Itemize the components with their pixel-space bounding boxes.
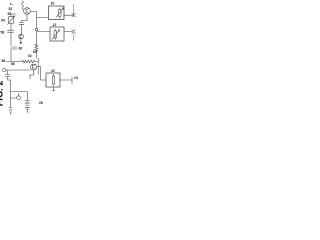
wire left column down xyxy=(10,49,12,62)
transducer T2 xyxy=(73,34,75,42)
wire box54 bottom down xyxy=(10,23,12,30)
labels 62 64 xyxy=(28,50,37,58)
transistor Q1 xyxy=(24,8,31,15)
capacitor C3 xyxy=(11,47,17,49)
svg-text:52: 52 xyxy=(9,7,13,11)
label 58 xyxy=(1,31,5,35)
svg-text:24: 24 xyxy=(74,76,78,80)
wire Q1 collector to bus xyxy=(30,11,36,13)
label 60 xyxy=(19,47,23,51)
variable component box 54 xyxy=(9,17,14,24)
transistor Q3 xyxy=(31,64,37,70)
wire under box 22 xyxy=(52,87,55,91)
label 10 xyxy=(51,2,55,6)
node label stack top-left (L, 52, 50) xyxy=(8,2,15,16)
wire to plus terminal xyxy=(11,97,17,99)
arrow in box 12 xyxy=(52,30,60,40)
wire resistor to Q3 area xyxy=(37,53,39,74)
wire box1 input xyxy=(37,17,49,19)
label 28 xyxy=(39,101,43,105)
svg-text:FIG. 2: FIG. 2 xyxy=(0,80,4,106)
svg-text:62: 62 xyxy=(28,54,32,58)
box 10 xyxy=(49,6,65,20)
label 66 xyxy=(11,62,15,66)
resistor R2 vertical zigzag xyxy=(35,44,38,53)
label 12 xyxy=(53,23,57,27)
transistor Q2 bars xyxy=(19,34,24,39)
transducer T1 xyxy=(73,5,75,14)
svg-text:58: 58 xyxy=(1,31,5,35)
resistor R1 horizontal zigzag xyxy=(22,60,38,63)
input terminal xyxy=(3,68,6,71)
figure label FIG. 2 xyxy=(0,80,4,106)
plus terminal xyxy=(17,96,21,100)
battery B2 xyxy=(25,101,30,113)
crystal X1 in box 10 xyxy=(59,8,61,18)
box 22 output filter xyxy=(46,73,60,87)
wire input to Q3 xyxy=(6,69,31,71)
label 22 xyxy=(51,69,55,73)
capacitor C4 xyxy=(5,70,10,80)
wire junction to box2 xyxy=(38,30,50,32)
capacitor C2 xyxy=(8,30,14,46)
svg-text:10: 10 xyxy=(51,2,55,6)
svg-text:56: 56 xyxy=(2,59,6,63)
svg-text:60: 60 xyxy=(19,47,23,51)
wire inductor to transistor Q1 xyxy=(23,9,24,11)
junction node xyxy=(35,28,38,31)
svg-text:54: 54 xyxy=(1,19,5,23)
output terminal bar xyxy=(71,77,73,84)
capacitor C1 xyxy=(19,21,27,31)
wire left battery line xyxy=(10,80,12,107)
wire box54 top xyxy=(11,14,16,17)
battery B1 xyxy=(9,108,12,115)
label 24 xyxy=(74,76,78,80)
inductor L1 xyxy=(22,1,24,9)
svg-text:12: 12 xyxy=(53,23,57,27)
arrow in box 10 xyxy=(56,8,64,18)
svg-text:66: 66 xyxy=(11,62,15,66)
svg-text:L₁: L₁ xyxy=(10,2,14,6)
label 54 xyxy=(1,19,5,23)
box 12 xyxy=(50,27,64,41)
wire Q1 emitter down xyxy=(26,14,28,20)
wire Q3 to output box xyxy=(37,67,46,81)
wire bus vertical xyxy=(36,12,38,29)
wire box 10 output xyxy=(64,14,72,16)
wire box 22 output xyxy=(60,79,72,81)
rail wire xyxy=(7,61,23,63)
wire bus continues xyxy=(36,31,38,45)
crystal X3 in box 22 xyxy=(52,74,54,86)
arrow through box 54 xyxy=(8,16,15,25)
wire Q3 emitter down xyxy=(30,70,34,79)
svg-text:22: 22 xyxy=(51,69,55,73)
svg-text:28: 28 xyxy=(39,101,43,105)
label 56 xyxy=(2,59,6,63)
crystal X2 in box 12 xyxy=(54,29,56,40)
wire middle battery line xyxy=(11,92,28,100)
wire box 12 output xyxy=(64,31,72,33)
